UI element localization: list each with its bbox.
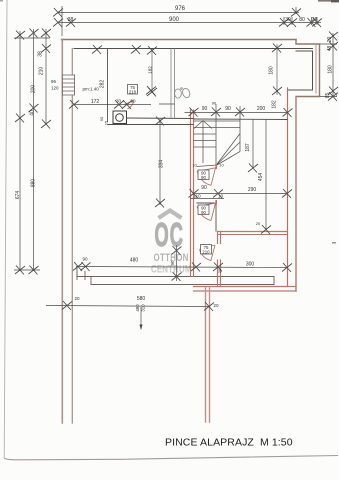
svg-text:182: 182 bbox=[272, 100, 278, 109]
svg-text:38: 38 bbox=[68, 17, 74, 23]
svg-text:15: 15 bbox=[104, 120, 109, 125]
svg-text:182: 182 bbox=[148, 66, 153, 74]
svg-text:110: 110 bbox=[193, 194, 201, 199]
svg-text:300: 300 bbox=[246, 262, 255, 268]
svg-text:30: 30 bbox=[116, 99, 122, 104]
svg-text:900: 900 bbox=[169, 17, 180, 23]
svg-text:880: 880 bbox=[31, 179, 37, 188]
svg-text:85: 85 bbox=[325, 93, 331, 99]
svg-text:480: 480 bbox=[130, 258, 139, 264]
svg-text:210: 210 bbox=[202, 249, 210, 254]
svg-text:40: 40 bbox=[30, 110, 36, 116]
svg-text:90: 90 bbox=[202, 106, 208, 112]
svg-text:20: 20 bbox=[213, 303, 219, 308]
svg-text:20: 20 bbox=[74, 296, 80, 301]
svg-text:PINCE ALAPRAJZ M 1:50: PINCE ALAPRAJZ M 1:50 bbox=[165, 437, 293, 449]
svg-text:20: 20 bbox=[217, 268, 222, 273]
svg-text:674: 674 bbox=[15, 191, 21, 200]
svg-text:10: 10 bbox=[192, 163, 197, 168]
svg-text:96: 96 bbox=[51, 79, 57, 84]
svg-text:90: 90 bbox=[201, 175, 206, 180]
svg-text:10: 10 bbox=[218, 194, 224, 199]
svg-text:976: 976 bbox=[175, 6, 186, 12]
svg-text:90: 90 bbox=[82, 257, 88, 262]
svg-text:334: 334 bbox=[159, 160, 165, 169]
svg-text:90: 90 bbox=[225, 106, 231, 112]
svg-text:48: 48 bbox=[327, 46, 333, 52]
svg-text:90: 90 bbox=[130, 99, 136, 104]
svg-text:90: 90 bbox=[201, 210, 206, 215]
svg-text:282: 282 bbox=[100, 80, 106, 89]
svg-text:480: 480 bbox=[135, 304, 140, 312]
svg-text:310: 310 bbox=[141, 304, 146, 312]
svg-text:210: 210 bbox=[39, 67, 45, 76]
svg-text:30: 30 bbox=[285, 17, 291, 23]
svg-text:180: 180 bbox=[328, 65, 334, 74]
svg-text:200: 200 bbox=[31, 85, 37, 94]
svg-text:80: 80 bbox=[299, 17, 305, 23]
svg-text:580: 580 bbox=[137, 296, 146, 302]
svg-text:20: 20 bbox=[256, 221, 261, 226]
svg-text:90: 90 bbox=[212, 101, 217, 106]
svg-text:90: 90 bbox=[99, 116, 104, 121]
svg-text:180: 180 bbox=[269, 66, 275, 75]
svg-text:20: 20 bbox=[312, 17, 318, 23]
svg-text:172: 172 bbox=[91, 99, 100, 105]
svg-text:pm:1.40: pm:1.40 bbox=[83, 87, 100, 92]
svg-text:38: 38 bbox=[38, 51, 44, 57]
svg-text:454: 454 bbox=[258, 173, 264, 182]
svg-text:218: 218 bbox=[129, 89, 137, 94]
svg-text:20: 20 bbox=[327, 37, 333, 43]
svg-text:10: 10 bbox=[219, 163, 224, 168]
svg-text:120: 120 bbox=[51, 86, 59, 91]
svg-text:187: 187 bbox=[245, 143, 251, 152]
svg-text:290: 290 bbox=[248, 187, 257, 193]
svg-text:90: 90 bbox=[201, 185, 207, 191]
svg-text:90: 90 bbox=[170, 260, 175, 266]
svg-text:200: 200 bbox=[257, 106, 266, 112]
